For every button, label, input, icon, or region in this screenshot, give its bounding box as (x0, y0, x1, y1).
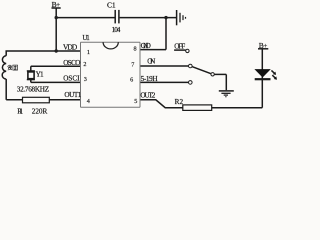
svg-text:B+: B+ (52, 0, 61, 9)
svg-text:104: 104 (112, 26, 121, 34)
svg-text:OFF: OFF (174, 43, 185, 51)
svg-text:32.768KHZ: 32.768KHZ (17, 86, 49, 94)
svg-text:3: 3 (84, 76, 87, 83)
svg-text:6: 6 (130, 76, 133, 83)
svg-text:R1: R1 (17, 108, 23, 116)
svg-text:OUT2: OUT2 (140, 91, 155, 99)
svg-text:R2: R2 (175, 98, 184, 106)
svg-text:1: 1 (87, 49, 90, 56)
svg-text:C1: C1 (107, 0, 116, 9)
svg-text:OSCI: OSCI (63, 75, 80, 83)
svg-text:Y1: Y1 (36, 70, 44, 78)
svg-text:B+: B+ (259, 41, 268, 50)
svg-text:GND: GND (141, 42, 151, 50)
svg-text:4: 4 (87, 98, 90, 105)
svg-text:OSCO: OSCO (63, 59, 80, 67)
svg-text:5: 5 (134, 98, 137, 105)
svg-text:7: 7 (131, 62, 134, 69)
svg-text:OUT1: OUT1 (64, 91, 81, 99)
svg-text:8: 8 (134, 46, 137, 53)
svg-text:2: 2 (83, 61, 86, 68)
svg-text:ON: ON (147, 58, 156, 66)
svg-text:VDD: VDD (63, 43, 78, 52)
svg-text:U1: U1 (82, 34, 90, 42)
svg-text:220R: 220R (32, 108, 48, 116)
svg-text:5-19H: 5-19H (141, 75, 158, 83)
